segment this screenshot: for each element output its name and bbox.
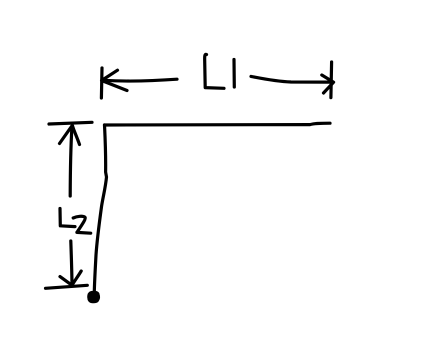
endpoint dot [88,292,99,302]
dimension L1 line right segment [251,76,329,82]
label L2 [60,209,75,227]
label L1 [205,54,224,88]
dimension L1 left arrowhead [102,70,127,90]
wire horizontal segment [105,123,331,125]
dimension L2 top tick [49,122,92,124]
dimension L2 top arrowhead [60,126,80,145]
dimension L1 line left segment [104,79,178,81]
dimension L2 line lower segment [71,241,72,284]
dimension L2 bottom arrowhead [60,271,81,285]
dimension L2 line upper segment [70,126,72,196]
dimension L1 right end bar [329,62,333,98]
dimension L1 right arrowhead [322,75,334,93]
dimension L2 bottom tick [46,285,88,288]
dimension L1 left end bar [100,68,104,98]
wire vertical segment [94,125,106,292]
